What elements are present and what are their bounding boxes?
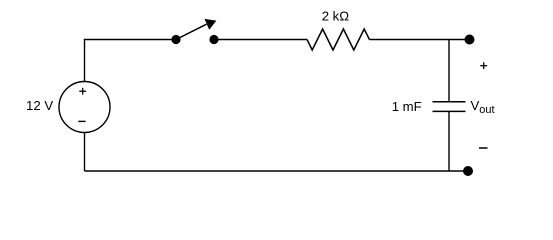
wire resistor to top-right node <box>369 39 469 41</box>
wire source top to top-left corner <box>84 40 86 82</box>
capacitor 1 mF <box>433 102 466 112</box>
switch (open, arrow arm) <box>171 19 218 44</box>
wire source bottom vertical <box>84 133 86 172</box>
label Vout <box>471 98 495 116</box>
svg-text:2 kΩ: 2 kΩ <box>322 9 350 24</box>
wire top to capacitor <box>448 40 450 102</box>
svg-text:12 V: 12 V <box>26 98 53 113</box>
node top-right terminal <box>465 35 475 45</box>
wire switch to resistor <box>214 39 307 41</box>
svg-text:Vout: Vout <box>471 98 495 116</box>
wire bottom rail <box>85 170 469 172</box>
svg-text:1 mF: 1 mF <box>392 99 422 114</box>
voltage source V (12 V) <box>59 82 110 133</box>
resistor 2 kOhm <box>307 29 369 50</box>
label - (output polarity bottom) <box>479 147 488 149</box>
label 2 kΩ <box>322 9 350 24</box>
wire capacitor to bottom <box>448 111 450 171</box>
label 12 V <box>26 98 53 113</box>
label 1 mF <box>392 99 422 114</box>
node bottom-right terminal <box>463 166 473 176</box>
wire top-left corner to switch <box>84 39 176 41</box>
label + (output polarity top) <box>480 62 487 69</box>
